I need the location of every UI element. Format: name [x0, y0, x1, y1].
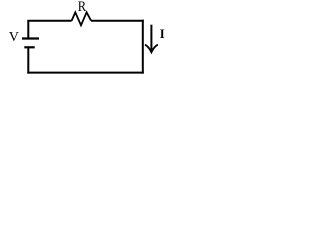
wire: top-right segment from resistor to top-right corner: [91, 20, 144, 22]
battery (voltage source) V : short bottom plate: [24, 46, 34, 48]
battery (voltage source) V : long top plate: [22, 37, 39, 39]
svg-text:R: R: [78, 0, 87, 14]
current arrow I (downward): [146, 25, 158, 53]
wire: right vertical segment: [142, 20, 144, 74]
wire: top-left segment from battery up and right to resistor: [28, 21, 71, 38]
wire: bottom-left vertical segment up to battery: [27, 47, 29, 73]
resistor R: [72, 12, 91, 25]
svg-text:I: I: [160, 27, 165, 41]
wire: bottom segment: [27, 72, 144, 74]
svg-text:V: V: [9, 29, 19, 44]
